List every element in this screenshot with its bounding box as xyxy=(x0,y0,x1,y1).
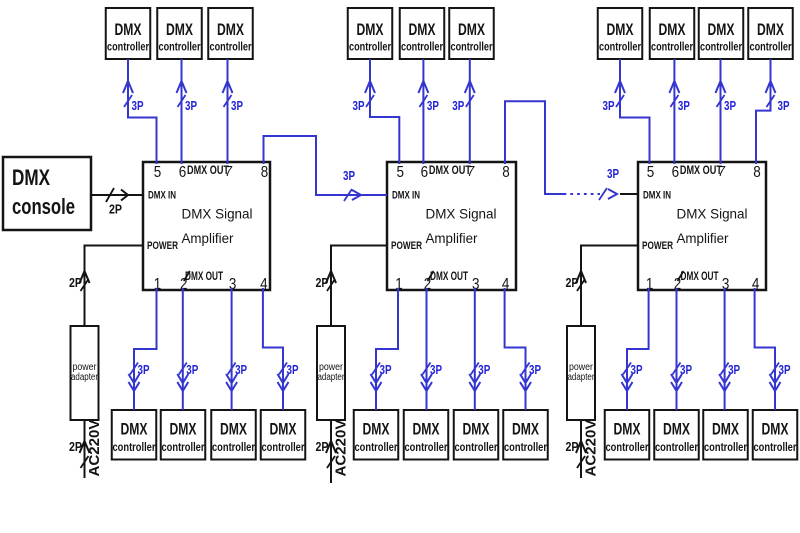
svg-text:8: 8 xyxy=(502,164,510,181)
svg-text:controller: controller xyxy=(704,440,747,454)
svg-text:3P: 3P xyxy=(724,98,736,113)
svg-text:DMX: DMX xyxy=(663,420,690,439)
svg-text:7: 7 xyxy=(718,163,726,180)
svg-text:3P: 3P xyxy=(680,362,692,377)
svg-text:controller: controller xyxy=(455,440,498,454)
svg-text:DMX: DMX xyxy=(607,20,634,39)
svg-text:3: 3 xyxy=(722,276,730,293)
svg-text:1: 1 xyxy=(646,276,654,293)
svg-text:controller: controller xyxy=(401,40,443,54)
svg-text:Amplifier: Amplifier xyxy=(426,230,478,246)
svg-text:DMX OUT: DMX OUT xyxy=(185,269,223,283)
svg-text:3P: 3P xyxy=(287,362,299,377)
svg-text:3P: 3P xyxy=(380,362,392,377)
svg-text:3: 3 xyxy=(229,276,237,293)
svg-text:3P: 3P xyxy=(185,98,197,113)
svg-text:DMX OUT: DMX OUT xyxy=(187,163,229,177)
svg-text:controller: controller xyxy=(355,440,398,454)
svg-text:DMX: DMX xyxy=(413,420,440,439)
svg-text:controller: controller xyxy=(113,440,156,454)
svg-text:3P: 3P xyxy=(343,168,355,183)
svg-text:DMX: DMX xyxy=(121,420,148,439)
svg-text:3P: 3P xyxy=(478,362,490,377)
svg-text:8: 8 xyxy=(261,164,269,181)
svg-text:DMX: DMX xyxy=(217,20,244,39)
svg-text:DMX IN: DMX IN xyxy=(643,190,671,202)
svg-text:3P: 3P xyxy=(607,166,619,181)
svg-text:2P: 2P xyxy=(69,275,82,290)
svg-text:8: 8 xyxy=(753,164,761,181)
svg-text:3P: 3P xyxy=(138,362,150,377)
svg-text:adapter: adapter xyxy=(568,372,596,383)
svg-text:Amplifier: Amplifier xyxy=(182,230,234,246)
svg-text:console: console xyxy=(12,194,75,219)
svg-text:POWER: POWER xyxy=(147,240,178,252)
svg-text:3P: 3P xyxy=(353,98,365,113)
svg-text:Amplifier: Amplifier xyxy=(677,230,729,246)
svg-text:DMX: DMX xyxy=(512,420,539,439)
svg-text:3P: 3P xyxy=(603,98,615,113)
svg-text:2P: 2P xyxy=(316,275,329,290)
svg-text:DMX: DMX xyxy=(170,420,197,439)
svg-text:controller: controller xyxy=(599,40,641,54)
svg-text:controller: controller xyxy=(262,440,305,454)
svg-text:controller: controller xyxy=(754,440,797,454)
svg-text:DMX Signal: DMX Signal xyxy=(182,206,253,222)
svg-text:2: 2 xyxy=(180,276,188,293)
svg-text:6: 6 xyxy=(179,164,187,181)
svg-text:DMX: DMX xyxy=(357,20,384,39)
svg-text:DMX: DMX xyxy=(712,420,739,439)
svg-text:3P: 3P xyxy=(186,362,198,377)
svg-text:2P: 2P xyxy=(69,439,82,454)
svg-text:controller: controller xyxy=(349,40,391,54)
svg-text:7: 7 xyxy=(467,163,475,180)
svg-text:3P: 3P xyxy=(235,362,247,377)
svg-text:5: 5 xyxy=(397,164,405,181)
svg-text:5: 5 xyxy=(154,164,162,181)
svg-text:3P: 3P xyxy=(427,98,439,113)
svg-text:controller: controller xyxy=(651,40,693,54)
svg-text:controller: controller xyxy=(212,440,255,454)
svg-text:3: 3 xyxy=(472,276,480,293)
svg-text:1: 1 xyxy=(154,276,162,293)
svg-text:2P: 2P xyxy=(566,275,579,290)
svg-text:DMX IN: DMX IN xyxy=(392,190,420,202)
svg-text:3P: 3P xyxy=(231,98,243,113)
svg-text:3P: 3P xyxy=(430,362,442,377)
svg-text:4: 4 xyxy=(502,276,510,293)
svg-text:controller: controller xyxy=(405,440,448,454)
svg-text:1: 1 xyxy=(395,276,403,293)
svg-text:DMX OUT: DMX OUT xyxy=(430,269,468,283)
svg-text:controller: controller xyxy=(107,40,149,54)
svg-text:2P: 2P xyxy=(566,439,579,454)
svg-text:3P: 3P xyxy=(631,362,643,377)
svg-text:controller: controller xyxy=(162,440,205,454)
svg-text:DMX: DMX xyxy=(12,165,50,190)
svg-text:6: 6 xyxy=(421,164,429,181)
svg-text:DMX: DMX xyxy=(220,420,247,439)
svg-text:DMX IN: DMX IN xyxy=(148,190,176,202)
svg-text:6: 6 xyxy=(672,164,680,181)
svg-text:AC220V: AC220V xyxy=(86,420,103,477)
svg-text:3P: 3P xyxy=(779,362,791,377)
svg-text:AC220V: AC220V xyxy=(583,420,600,477)
svg-text:3P: 3P xyxy=(452,98,464,113)
svg-text:controller: controller xyxy=(159,40,201,54)
svg-text:controller: controller xyxy=(606,440,649,454)
svg-text:DMX: DMX xyxy=(363,420,390,439)
svg-text:controller: controller xyxy=(750,40,792,54)
svg-text:3P: 3P xyxy=(132,98,144,113)
svg-text:controller: controller xyxy=(700,40,742,54)
svg-text:adapter: adapter xyxy=(318,372,346,383)
svg-text:DMX OUT: DMX OUT xyxy=(680,163,722,177)
svg-text:DMX Signal: DMX Signal xyxy=(426,206,497,222)
svg-text:2P: 2P xyxy=(316,439,329,454)
svg-text:controller: controller xyxy=(210,40,252,54)
svg-text:DMX: DMX xyxy=(757,20,784,39)
svg-text:5: 5 xyxy=(647,164,655,181)
svg-text:DMX: DMX xyxy=(614,420,641,439)
svg-text:DMX: DMX xyxy=(659,20,686,39)
svg-text:3P: 3P xyxy=(728,362,740,377)
svg-text:DMX: DMX xyxy=(409,20,436,39)
svg-text:4: 4 xyxy=(752,276,760,293)
svg-text:controller: controller xyxy=(451,40,493,54)
svg-text:DMX: DMX xyxy=(463,420,490,439)
svg-text:DMX: DMX xyxy=(270,420,297,439)
svg-text:2: 2 xyxy=(424,276,432,293)
svg-text:2: 2 xyxy=(674,276,682,293)
svg-text:controller: controller xyxy=(655,440,698,454)
svg-text:DMX: DMX xyxy=(762,420,789,439)
svg-text:DMX: DMX xyxy=(166,20,193,39)
svg-text:2P: 2P xyxy=(109,202,122,217)
svg-text:DMX: DMX xyxy=(115,20,142,39)
svg-text:DMX OUT: DMX OUT xyxy=(429,163,471,177)
svg-text:DMX OUT: DMX OUT xyxy=(681,269,719,283)
svg-text:7: 7 xyxy=(225,163,233,180)
svg-text:3P: 3P xyxy=(778,98,790,113)
svg-text:POWER: POWER xyxy=(642,240,673,252)
svg-text:POWER: POWER xyxy=(391,240,422,252)
svg-text:DMX: DMX xyxy=(458,20,485,39)
svg-text:3P: 3P xyxy=(529,362,541,377)
svg-text:3P: 3P xyxy=(678,98,690,113)
svg-text:4: 4 xyxy=(260,276,268,293)
svg-text:DMX: DMX xyxy=(708,20,735,39)
svg-text:controller: controller xyxy=(504,440,547,454)
svg-text:AC220V: AC220V xyxy=(333,420,350,477)
svg-text:DMX Signal: DMX Signal xyxy=(677,206,748,222)
svg-text:adapter: adapter xyxy=(71,372,99,383)
